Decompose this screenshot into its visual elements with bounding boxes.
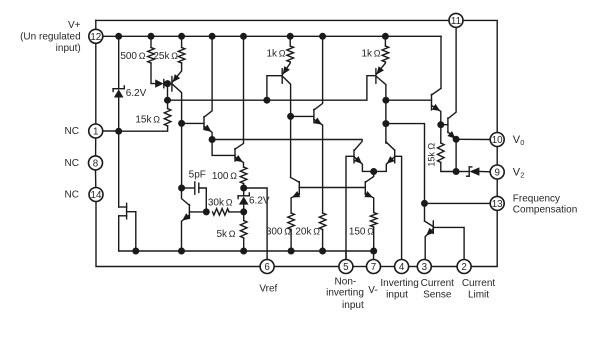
svg-text:5: 5: [343, 262, 349, 273]
svg-text:3: 3: [422, 262, 428, 273]
svg-text:Ω: Ω: [153, 115, 160, 125]
svg-text:Ω: Ω: [279, 49, 286, 59]
svg-text:Ω: Ω: [374, 49, 381, 59]
svg-text:15k Ω: 15k Ω: [427, 143, 437, 167]
svg-text:Current: Current: [462, 278, 496, 289]
svg-text:1k: 1k: [361, 49, 373, 60]
svg-text:NC: NC: [65, 126, 79, 137]
svg-text:5k: 5k: [216, 229, 228, 240]
svg-text:input: input: [386, 289, 408, 300]
svg-text:Compensation: Compensation: [513, 205, 577, 216]
svg-text:0: 0: [520, 138, 524, 147]
svg-text:2: 2: [520, 171, 524, 180]
svg-text:300: 300: [266, 227, 283, 238]
svg-text:Limit: Limit: [468, 289, 489, 300]
svg-text:12: 12: [90, 32, 101, 43]
svg-text:input): input): [56, 43, 81, 54]
svg-text:Ω: Ω: [367, 227, 374, 237]
svg-text:Ω: Ω: [313, 227, 320, 237]
svg-text:Ω: Ω: [284, 227, 291, 237]
svg-text:9: 9: [494, 168, 499, 179]
svg-text:(Un regulated: (Un regulated: [20, 32, 81, 43]
svg-text:Vref: Vref: [259, 284, 277, 295]
svg-text:Ω: Ω: [230, 171, 237, 181]
svg-text:100: 100: [212, 171, 229, 182]
svg-text:7: 7: [371, 262, 376, 273]
svg-text:13: 13: [492, 199, 503, 210]
svg-text:8: 8: [93, 158, 99, 169]
svg-text:20k: 20k: [295, 227, 312, 238]
svg-text:V-: V-: [368, 285, 377, 296]
svg-text:Ω: Ω: [229, 229, 236, 239]
svg-text:6.2V: 6.2V: [249, 196, 270, 207]
svg-text:Current: Current: [421, 278, 455, 289]
svg-text:Inverting: Inverting: [380, 278, 418, 289]
svg-text:15k: 15k: [135, 115, 152, 126]
svg-text:Sense: Sense: [423, 289, 452, 300]
svg-text:14: 14: [91, 190, 102, 201]
svg-text:150: 150: [349, 227, 366, 238]
svg-text:1k: 1k: [266, 49, 278, 60]
svg-text:inverting: inverting: [326, 288, 364, 299]
svg-text:500: 500: [120, 51, 137, 62]
svg-text:4: 4: [399, 262, 405, 273]
svg-text:2: 2: [461, 262, 466, 273]
svg-text:Non-: Non-: [335, 276, 357, 287]
svg-text:input: input: [342, 300, 364, 311]
svg-text:6: 6: [264, 262, 270, 273]
svg-text:V+: V+: [68, 20, 81, 31]
svg-text:6.2V: 6.2V: [126, 88, 147, 99]
svg-text:5pF: 5pF: [189, 170, 206, 181]
svg-text:10: 10: [492, 135, 503, 146]
svg-text:Ω: Ω: [226, 197, 233, 207]
svg-text:Ω: Ω: [139, 51, 146, 61]
svg-text:NC: NC: [65, 190, 79, 201]
svg-text:30k: 30k: [208, 197, 225, 208]
svg-text:25k: 25k: [153, 51, 170, 62]
svg-text:Ω: Ω: [171, 51, 178, 61]
svg-text:NC: NC: [65, 158, 79, 169]
svg-text:11: 11: [451, 16, 461, 27]
svg-text:Frequency: Frequency: [513, 194, 560, 205]
svg-text:1: 1: [93, 127, 98, 138]
